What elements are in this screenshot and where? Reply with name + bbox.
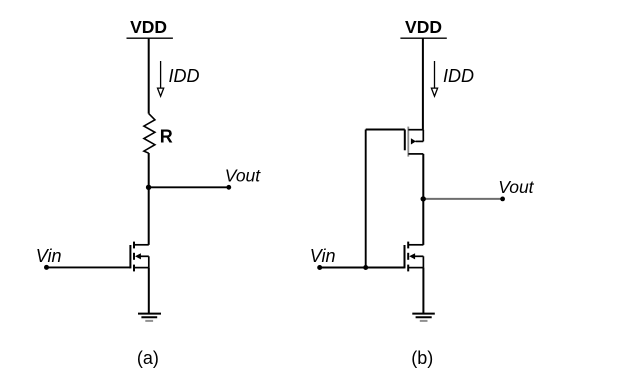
svg-text:IDD: IDD [443, 66, 474, 86]
svg-text:R: R [160, 127, 173, 147]
svg-text:Vout: Vout [225, 165, 261, 185]
svg-text:IDD: IDD [169, 66, 200, 86]
svg-text:Vin: Vin [36, 246, 62, 266]
svg-text:Vin: Vin [310, 246, 336, 266]
svg-text:VDD: VDD [405, 17, 442, 37]
svg-text:(b): (b) [411, 348, 433, 368]
svg-text:(a): (a) [137, 348, 159, 368]
svg-text:VDD: VDD [130, 17, 167, 37]
svg-text:Vout: Vout [498, 177, 534, 197]
